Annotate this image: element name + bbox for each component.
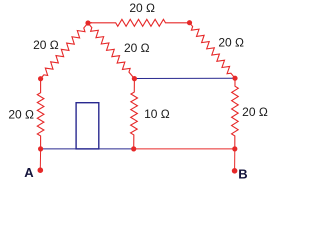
svg-text:A: A [24,165,34,180]
svg-text:20 Ω: 20 Ω [129,1,155,15]
wire: terminal A stub (bottom-left junction down to terminal A) [39,149,41,170]
svg-text:20 Ω: 20 Ω [33,38,59,52]
junction dot: right eave node [232,76,237,81]
wire: blue eave wire (middle eave node to right eave node) [134,77,235,79]
door rectangle (house door drawing) [76,103,99,149]
junction dot: bottom-right junction [232,146,237,151]
wire: terminal B stub (bottom-right junction down to terminal B) [234,149,236,171]
wire: red bottom wire (bottom-middle junction to bottom-right junction) [134,148,235,150]
junction dot: bottom-middle junction [131,146,136,151]
junction dot: bottom-left junction [38,146,43,151]
junction dot: middle eave node [132,76,137,81]
junction dot: left eave node [38,76,43,81]
resistor 20 ohm (top horizontal) [88,19,190,26]
resistor 20 ohm (right roof, top-right node to right eave node) [190,23,236,78]
svg-text:20 Ω: 20 Ω [218,35,244,49]
resistor 10 ohm (middle vertical) [131,79,138,149]
node B terminal dot [232,168,238,174]
wire: left peak lead (peak node to top resistor) [88,22,92,24]
node A terminal dot [38,167,44,173]
resistor 20 ohm (left roof, node A-wall-top to peak) [41,23,88,79]
svg-text:20 Ω: 20 Ω [8,107,34,121]
svg-text:20 Ω: 20 Ω [124,41,150,55]
resistor 20 ohm (right wall vertical) [232,78,239,149]
svg-text:10 Ω: 10 Ω [144,107,170,121]
resistor 20 ohm (middle roof, peak to middle eave node) [88,23,134,79]
svg-text:B: B [238,167,247,182]
svg-text:20 Ω: 20 Ω [242,105,268,119]
junction dot: top-right node [187,20,192,25]
junction dot: peak node [85,20,90,25]
resistor 20 ohm (left wall vertical) [37,79,44,149]
wire: blue bottom wire (bottom-left junction to bottom-middle junction) [41,148,134,150]
